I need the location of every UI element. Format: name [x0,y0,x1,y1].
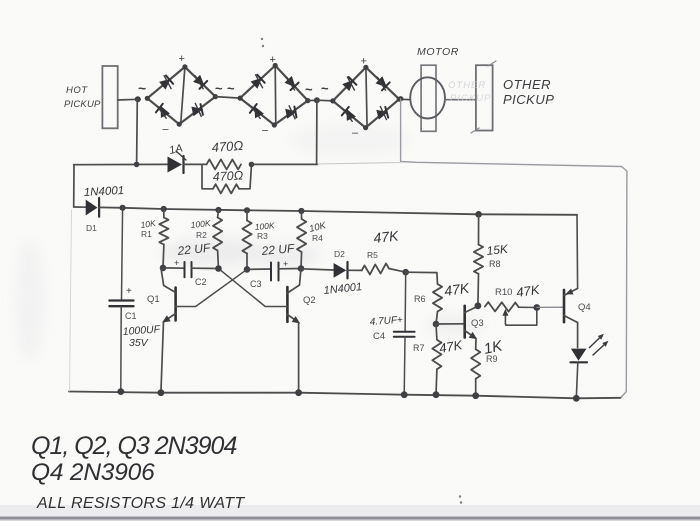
wire C2 to R2 node [192,267,219,269]
paper bottom edge shadow [0,505,700,521]
ground bus junction dot at Q1 emitter [158,389,165,396]
bridge BR3 diode top-right [376,76,390,90]
junction dot below R3 [244,266,251,273]
tilde labels between BR1 and BR2 [215,81,235,96]
wire bus right corner down to Q4 emitter [576,215,579,289]
wire LED to ground bus [576,363,578,399]
bridge BR1 node dots and polarity labels [145,53,218,136]
junction dot right of 470 pair [249,162,255,168]
wire node N5 to Q3 base [436,323,465,325]
transistor Q1 2N3904 [161,268,176,392]
wire R10 wiper loop to node N6 [505,308,536,326]
node N1 junction [135,96,141,102]
label 10K R4 [308,220,328,243]
wire bridge BR1 to bridge BR2 [215,97,240,99]
resistor R7 47K [432,324,441,395]
potentiometer R10 47K [485,302,519,324]
ground bus junction dot at Q2 emitter [295,389,302,396]
label 10K R1 [140,218,157,239]
resistor R9 1K [471,349,480,396]
bridge BR3 diode top-left [342,77,356,91]
node N4 junction dot [402,269,409,276]
ground bus junction dot at C4 [401,391,408,398]
junction dot bus at R8 [475,211,482,218]
stray pencil speck bottom [459,495,462,503]
node Q3 collector junction dot [475,302,482,309]
wire C1 to ground bus [120,307,122,392]
node N6 junction dot [533,304,540,311]
wire node N4 down to C4 [404,272,407,332]
wire motor return: node N3 down right side to ground bus [401,99,627,398]
bridge BR2 diode bottom-right [285,106,297,119]
bridge rectifier BR3 outline [333,67,399,127]
capacitor C2 22uF [174,258,192,277]
wire R1 node to C2 [163,267,185,269]
bridge BR3 node dots and polarity labels [330,56,402,140]
bridge BR1 diode bottom-right [191,103,203,116]
bridge BR3 diode bottom-right [376,107,388,120]
junction dot below R1 [160,265,167,272]
wire Q2 base to R2 node (cross coupling) [221,270,288,306]
faint wire continuation to motor drop [318,163,400,165]
bridge BR2 diode bottom-left [250,104,264,118]
wire node N4 to R6 [406,272,438,284]
wire R10 right terminal to node N6 [519,306,537,308]
node N3 junction at motor [398,96,403,101]
junction dot bus at R3 [244,207,250,213]
wire node N2 down to 470 ohm pair [316,100,318,164]
wire R6 to node N5 [436,312,438,325]
wire R4 node to D2 [301,269,334,270]
ground bus junction dot at R9 [472,392,479,399]
capacitor C4 4.7uF [394,332,415,337]
label 100K R3 [254,220,275,241]
resistor R3 100K [242,210,251,269]
diode D1 [86,198,99,217]
resistor R1 10K [159,209,168,268]
resistor R2 100K [213,210,222,269]
diode D5 1A series diode [168,151,187,173]
wire left rail from diode line down to D1 bus [73,165,75,207]
junction dot bus at C1 [120,205,126,211]
wire 470 pair to N2 drop [252,163,318,165]
bridge BR1 diode bottom-left [156,104,170,118]
wire ground bus [69,392,621,399]
motor housing [421,65,436,131]
wire bus down to C1 [122,208,123,300]
node N2 junction [314,97,320,103]
motor M1 body [410,77,445,118]
wire Q1 base to R3 node (cross coupling) [176,270,246,306]
label 100K R2 [190,218,211,240]
transistor Q3 2N3904 [465,306,478,349]
wire D1 bus left segment [74,206,86,208]
junction dot on diode line below N1 [134,162,140,168]
other pickup electrode [471,61,496,133]
bridge BR2 node dots and polarity labels [238,54,311,137]
junction dot below R2 [215,265,222,272]
wire bridge BR2 to node N2 [308,99,318,101]
wire C3 to R4 node [279,268,302,270]
resistor R6 47K [433,284,442,312]
junction dot bus at R4 [298,208,304,214]
wire R5 to node N4 [389,269,406,273]
transistor Q4 2N3906 [564,288,578,347]
wire C4 to ground bus [403,337,406,395]
resistor R5 47K [362,263,389,274]
junction dot bus at R1 [161,206,167,212]
bridge BR1 diode top-right [193,75,207,89]
bridge BR2 diode top-left [251,75,265,89]
wire R3 node to C3 [247,268,271,270]
ground bus junction dot at LED [573,395,580,402]
capacitor C3 22uF [271,259,288,281]
wire node N2 to bridge BR3 [317,99,333,102]
hot pickup electrode [102,66,117,128]
node N5 junction dot [433,321,440,328]
ground bus junction dot at C1 [117,388,124,395]
ghost bleed-through text other pickup [448,80,491,104]
wire node N6 to Q4 base [537,306,564,308]
bridge rectifier BR2 outline [240,66,308,126]
capacitor C1 1000uF 35V [109,286,133,306]
ground bus junction dot at R7 [433,391,440,398]
wire D5 to 470 ohm pair [184,163,207,165]
wire D1 bus main rail [99,207,577,214]
wire D2 to R5 [348,269,361,271]
wire bus to R8 [478,214,480,244]
stray pencil speck top [261,38,264,47]
bridge BR2 diode top-right [285,76,299,90]
wire diode line horizontal [74,163,168,165]
label OTHER PICKUP [503,77,554,107]
wire node N1 down to diode line [136,100,139,165]
resistor R470a 470 ohm top [207,159,242,169]
bridge BR3 diode bottom-left [342,107,356,121]
label HOT PICKUP [64,85,101,110]
bridge BR1 diode top-left [159,76,173,90]
wire hot pickup to node N1 [118,98,140,101]
LED light arrows [590,334,609,355]
wire R8 to Q3 collector node [477,274,480,306]
bridge rectifier BR1 outline [147,67,215,124]
faint left margin crease line [70,210,72,391]
tilde labels between BR2 and BR3 [305,81,329,97]
transistor Q2 2N3904 [287,269,301,393]
LED D3 [571,349,588,363]
junction dot bus at R2 [215,207,221,213]
resistor R4 10K [297,211,306,269]
junction dot below R4 [298,265,305,272]
diode D2 1N4001 [334,262,348,278]
wire bridge BR3 to motor [399,98,410,101]
resistor R470b 470 ohm bottom parallel loop [202,164,252,193]
resistor R8 15K [474,245,483,274]
wire motor to other pickup [445,99,476,101]
